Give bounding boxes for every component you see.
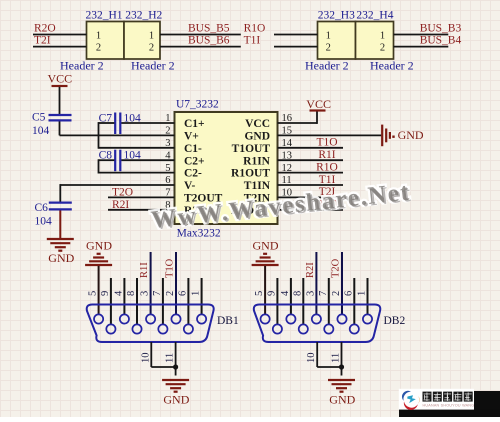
svg-text:Header 2: Header 2 bbox=[60, 59, 104, 73]
svg-text:232_H4: 232_H4 bbox=[356, 9, 393, 21]
connector DB1 body bbox=[87, 305, 239, 343]
wire pin10 to pin11 bbox=[151, 366, 175, 368]
wire vertical C2 jog bbox=[98, 159, 100, 173]
svg-text:10: 10 bbox=[140, 353, 151, 364]
pin 11 wire bbox=[175, 342, 177, 367]
connector 232_H3 bbox=[305, 9, 356, 72]
svg-text:GND: GND bbox=[253, 238, 279, 252]
svg-text:VCC: VCC bbox=[306, 97, 331, 111]
svg-text:V+: V+ bbox=[184, 131, 199, 143]
pin 9 stub bbox=[276, 278, 278, 324]
wire pin6 V- bbox=[60, 184, 174, 186]
svg-text:11: 11 bbox=[165, 353, 176, 363]
svg-text:BUS_B4: BUS_B4 bbox=[420, 34, 462, 46]
svg-text:DB1: DB1 bbox=[217, 315, 239, 327]
svg-text:GND: GND bbox=[48, 251, 74, 265]
svg-text:C6: C6 bbox=[35, 202, 49, 214]
pin 8 stub bbox=[302, 278, 304, 324]
svg-text:1: 1 bbox=[96, 31, 101, 42]
pin 1 stub bbox=[367, 278, 369, 314]
pin 7 stub bbox=[328, 278, 330, 324]
svg-text:GND: GND bbox=[244, 131, 270, 143]
wire T2I bbox=[33, 46, 87, 48]
svg-text:VCC: VCC bbox=[48, 72, 73, 86]
svg-text:9: 9 bbox=[266, 291, 277, 296]
wire BUS_B6 bbox=[160, 46, 241, 48]
svg-text:R2I: R2I bbox=[305, 262, 316, 278]
op-amp U7_3232 (Max3232 IC body) bbox=[175, 99, 278, 240]
svg-text:R1O: R1O bbox=[244, 22, 266, 34]
svg-text:104: 104 bbox=[124, 150, 142, 162]
wire pin1 to C7 bbox=[121, 122, 174, 124]
svg-text:T1I: T1I bbox=[244, 34, 261, 46]
svg-text:GND: GND bbox=[398, 128, 424, 142]
svg-text:R1O: R1O bbox=[316, 161, 338, 173]
svg-text:6: 6 bbox=[343, 291, 354, 296]
wire T2I (pin 10) bbox=[278, 196, 344, 198]
wire pin2 V+ bbox=[60, 134, 175, 136]
svg-text:3: 3 bbox=[305, 291, 316, 296]
wire pin16 to VCC bbox=[278, 122, 318, 124]
watermark Waveshare bbox=[150, 178, 414, 235]
svg-text:BUS_B3: BUS_B3 bbox=[420, 22, 462, 34]
pin 11 wire bbox=[341, 342, 343, 367]
svg-text:2: 2 bbox=[165, 291, 176, 296]
svg-text:DB2: DB2 bbox=[384, 315, 406, 327]
wire junction to ground bbox=[341, 367, 343, 376]
svg-text:BUS_B5: BUS_B5 bbox=[188, 22, 230, 34]
svg-text:4: 4 bbox=[280, 290, 291, 296]
capacitor C8 bbox=[99, 150, 141, 172]
pin 7 stub bbox=[162, 278, 164, 324]
svg-text:T1IN: T1IN bbox=[244, 180, 271, 192]
wire pin15 GND bbox=[278, 134, 382, 136]
power port VCC (top) bbox=[306, 97, 331, 111]
wire T1O to pin 2 bbox=[175, 252, 177, 314]
svg-text:Header 2: Header 2 bbox=[131, 59, 175, 73]
svg-text:C1-: C1- bbox=[184, 143, 202, 155]
svg-text:6: 6 bbox=[177, 291, 188, 296]
svg-text:1: 1 bbox=[326, 31, 331, 42]
ground below DB2 bbox=[328, 380, 356, 406]
svg-text:C2+: C2+ bbox=[184, 155, 205, 167]
wire R1O (pin 12) bbox=[278, 172, 344, 174]
connector 232_H2 bbox=[124, 9, 175, 72]
svg-text:8: 8 bbox=[126, 291, 137, 296]
svg-text:R1I: R1I bbox=[318, 149, 335, 161]
connector DB2 body bbox=[254, 305, 406, 343]
svg-text:3: 3 bbox=[140, 291, 151, 296]
svg-text:V-: V- bbox=[184, 180, 195, 192]
capacitor C5 bbox=[32, 112, 72, 137]
wire pin4 to C8 bbox=[121, 159, 174, 161]
svg-text:T1O: T1O bbox=[165, 258, 176, 278]
svg-text:R2O: R2O bbox=[34, 22, 56, 34]
svg-text:T1I: T1I bbox=[319, 174, 336, 186]
svg-text:4: 4 bbox=[113, 290, 124, 296]
wire T2O (pin7) bbox=[108, 196, 175, 198]
svg-text:VCC: VCC bbox=[245, 118, 270, 130]
pin 6 stub bbox=[187, 278, 189, 324]
svg-text:R1I: R1I bbox=[139, 262, 150, 278]
pin 1 stub bbox=[201, 278, 203, 314]
connector 232_H4 bbox=[356, 9, 414, 72]
wire R1I to pin 3 bbox=[150, 252, 152, 314]
wire T1I (pin 11) bbox=[278, 184, 344, 186]
wire R2I (pin8) bbox=[108, 209, 175, 211]
wire C8 to corner bbox=[99, 159, 115, 161]
svg-text:2: 2 bbox=[380, 43, 385, 54]
svg-text:232_H1: 232_H1 bbox=[86, 9, 123, 21]
ground below C6 bbox=[47, 239, 75, 265]
pin 8 stub bbox=[136, 278, 138, 324]
svg-text:7: 7 bbox=[318, 291, 329, 296]
svg-text:T2I: T2I bbox=[34, 34, 51, 46]
svg-text:GND: GND bbox=[329, 392, 355, 406]
pin 10 wire bbox=[316, 342, 318, 367]
svg-text:Header 2: Header 2 bbox=[370, 59, 414, 73]
ground above DB1 pin 5 bbox=[85, 238, 112, 265]
wire R1I (pin 13) bbox=[278, 159, 344, 161]
wire junction to ground bbox=[175, 367, 177, 376]
pin 4 stub bbox=[290, 278, 292, 314]
svg-text:104: 104 bbox=[124, 112, 142, 124]
wire R1O bbox=[274, 34, 318, 36]
wire vertical C1 jog bbox=[98, 122, 100, 149]
svg-text:232_H2: 232_H2 bbox=[125, 9, 162, 21]
svg-text:1: 1 bbox=[191, 291, 202, 296]
ground below DB1 bbox=[162, 380, 190, 406]
svg-text:BUS_B6: BUS_B6 bbox=[188, 34, 230, 46]
wire BUS_B4 bbox=[394, 46, 449, 48]
power ground (right of pin15) bbox=[382, 125, 424, 147]
svg-text:104: 104 bbox=[32, 125, 50, 137]
capacitor C6 bbox=[35, 202, 72, 227]
ground above DB2 pin 5 bbox=[252, 238, 279, 265]
svg-text:2: 2 bbox=[96, 43, 101, 54]
svg-text:GND: GND bbox=[163, 392, 189, 406]
pin 9 stub bbox=[110, 278, 112, 324]
wire pin3 C1- bbox=[99, 147, 175, 149]
svg-text:R1OUT: R1OUT bbox=[231, 168, 270, 180]
junction bbox=[173, 364, 178, 369]
wire BUS_B3 bbox=[394, 34, 449, 36]
svg-text:2: 2 bbox=[331, 291, 342, 296]
svg-text:8: 8 bbox=[292, 291, 303, 296]
svg-text:10: 10 bbox=[306, 353, 317, 364]
svg-text:C1+: C1+ bbox=[184, 118, 205, 130]
wire ground to pin 5 bbox=[264, 266, 266, 315]
svg-text:HUANAN SHOUYOU WANG: HUANAN SHOUYOU WANG bbox=[423, 404, 475, 408]
wire R2O bbox=[33, 34, 87, 36]
wire T2O to pin 2 bbox=[341, 252, 343, 314]
svg-text:2: 2 bbox=[149, 43, 154, 54]
svg-text:C5: C5 bbox=[32, 112, 46, 124]
wire R2I to pin 3 bbox=[315, 252, 317, 314]
svg-text:11: 11 bbox=[331, 353, 342, 363]
wire T1O (pin 14) bbox=[278, 147, 344, 149]
svg-text:GND: GND bbox=[86, 238, 112, 252]
wire VCC to C5 bbox=[59, 87, 61, 114]
svg-text:U7_3232: U7_3232 bbox=[176, 99, 219, 111]
svg-text:1: 1 bbox=[149, 31, 154, 42]
pin 10 wire bbox=[150, 342, 152, 367]
svg-text:104: 104 bbox=[35, 215, 53, 227]
svg-text:R1IN: R1IN bbox=[243, 155, 271, 167]
wire C6 to ground bbox=[59, 211, 61, 239]
wire C5 to V+ net bbox=[59, 122, 61, 136]
connector 232_H1 bbox=[60, 9, 124, 72]
wire T1I bbox=[274, 46, 318, 48]
svg-text:1: 1 bbox=[357, 291, 368, 296]
svg-text:7: 7 bbox=[152, 291, 163, 296]
svg-text:T1OUT: T1OUT bbox=[232, 143, 271, 155]
pin 6 stub bbox=[353, 278, 355, 324]
capacitor C7 bbox=[99, 112, 141, 134]
wire C7 to corner bbox=[99, 122, 115, 124]
watermark logo box bbox=[399, 389, 500, 417]
svg-text:2: 2 bbox=[326, 43, 331, 54]
svg-text:T2O: T2O bbox=[331, 258, 342, 278]
wire V- down to C6 bbox=[59, 184, 61, 202]
wire pin10 to pin11 bbox=[317, 366, 341, 368]
svg-text:R2I: R2I bbox=[112, 199, 129, 211]
pin 4 stub bbox=[123, 278, 125, 314]
svg-text:232_H3: 232_H3 bbox=[318, 9, 355, 21]
junction bbox=[339, 364, 344, 369]
wire pin5 C2- bbox=[99, 172, 175, 174]
wire R2O (pin 9) bbox=[278, 209, 344, 211]
power port VCC (left) bbox=[48, 72, 73, 86]
svg-text:C2-: C2- bbox=[184, 168, 202, 180]
svg-text:T1O: T1O bbox=[316, 137, 337, 149]
wire ground to pin 5 bbox=[98, 266, 100, 315]
svg-text:9: 9 bbox=[100, 291, 111, 296]
svg-text:5: 5 bbox=[254, 291, 265, 296]
wire BUS_B5 bbox=[160, 34, 241, 36]
svg-text:5: 5 bbox=[88, 291, 99, 296]
svg-text:Header 2: Header 2 bbox=[305, 59, 349, 73]
svg-text:1: 1 bbox=[380, 31, 385, 42]
svg-text:T2O: T2O bbox=[112, 187, 133, 199]
